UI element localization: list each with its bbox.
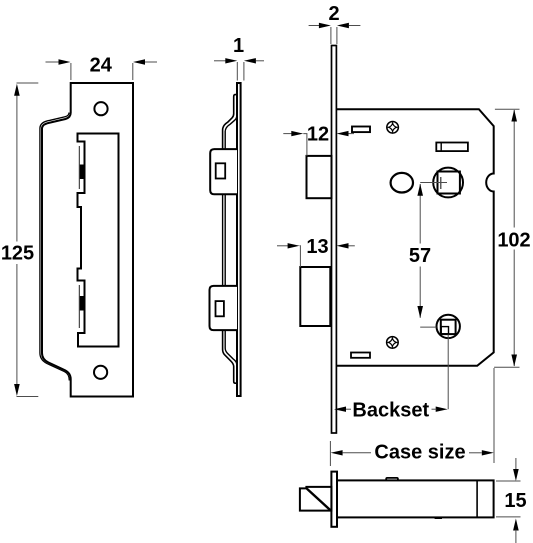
BOTTOM-VIEW <box>300 458 527 543</box>
MIDDLE-VIEW <box>210 35 265 396</box>
dim 1 extension left <box>236 62 238 81</box>
svg-text:125: 125 <box>1 243 34 265</box>
dim 1 arrow line left <box>214 60 226 62</box>
latch bolt head <box>300 487 332 511</box>
keeper inner line top <box>78 146 80 189</box>
dim 57 line lower <box>419 267 421 318</box>
LEFT-VIEW <box>1 54 157 396</box>
svg-text:Backset: Backset <box>352 400 429 422</box>
key follower square <box>441 320 456 334</box>
dim 57 line upper <box>419 184 421 244</box>
dim 15 arrowhead up <box>513 519 519 531</box>
dim 125 arrowhead up <box>14 84 20 96</box>
svg-text:57: 57 <box>409 245 431 267</box>
dim 13 leader elbow <box>299 246 302 267</box>
dim 15 line top <box>515 458 517 470</box>
slot lower left <box>351 353 370 358</box>
dim 102 line lower <box>513 250 515 367</box>
keeper dark bar top <box>80 165 84 180</box>
slot upper middle <box>436 143 468 152</box>
tab 2 square hole <box>216 301 224 316</box>
dim 2 arrow line left <box>309 25 319 27</box>
RIGHT-VIEW <box>277 3 531 466</box>
spindle inner line <box>440 177 442 189</box>
dim 13 arrowhead right <box>337 243 349 248</box>
case size arrowhead left <box>331 450 343 455</box>
key follower inner rect <box>441 327 448 334</box>
dim 24 extension right <box>132 63 134 80</box>
dim 57 stub top <box>420 182 447 184</box>
dim 12 arrow line left <box>283 133 291 135</box>
dim 102 tick bottom <box>494 366 519 368</box>
lock case body outline <box>337 109 494 366</box>
side plate body <box>237 83 241 396</box>
svg-text:13: 13 <box>306 236 328 258</box>
faceplate edge-on <box>332 46 337 434</box>
faceplate bar <box>331 472 337 527</box>
oval follower hole <box>391 173 413 193</box>
case size line right <box>469 452 482 454</box>
slot upper left <box>352 127 370 133</box>
svg-text:1: 1 <box>233 35 244 57</box>
backset arrowhead right <box>436 407 448 412</box>
dim 24 arrow line left <box>46 61 60 63</box>
dim 102 line upper <box>513 110 515 228</box>
dim 102 tick top <box>495 108 520 110</box>
dim 12 tail right <box>349 133 355 135</box>
dim 15 extension bottom <box>496 516 521 518</box>
svg-text:15: 15 <box>504 490 526 512</box>
dim 1 arrowhead left <box>225 58 237 63</box>
dim 57 stub bottom <box>420 326 436 328</box>
case size extension right <box>493 368 495 463</box>
dim 2 arrowhead left <box>319 23 331 28</box>
slot divider <box>440 143 442 152</box>
screw hole top <box>94 102 107 115</box>
latch bolt bevel diagonal <box>307 489 331 511</box>
lip line outer between tabs <box>222 194 224 286</box>
strike plate lip outer edge (double line) <box>40 113 69 381</box>
dim 1 arrow line right <box>256 60 264 62</box>
phillips screw top star <box>388 123 396 131</box>
dim 2 arrowhead right <box>337 23 349 28</box>
dim 24 arrowhead left <box>59 59 71 64</box>
dim 12 leader elbow <box>303 134 307 156</box>
dim 102 arrowhead down <box>511 355 517 367</box>
keeper inner line bottom <box>78 285 80 328</box>
backset line right <box>432 408 437 410</box>
keeper tab 1 <box>210 149 237 194</box>
follower leader line <box>447 335 449 410</box>
latch bolt box <box>307 156 332 198</box>
case size arrowhead right <box>482 450 494 455</box>
dim 13 arrow line left <box>277 245 288 247</box>
case size extension left <box>329 441 331 466</box>
phillips screw bottom circle <box>387 337 399 349</box>
dim 125 line upper <box>16 96 18 242</box>
bolt case end cap divider <box>476 480 478 517</box>
lower lip curve inner <box>225 330 237 364</box>
lower lip curve outer and bottom ear <box>223 330 237 383</box>
screw hole bottom <box>94 366 107 379</box>
strike plate outer outline <box>42 83 133 397</box>
dim 12 arrowhead right <box>337 131 349 136</box>
dim 1 extension right <box>243 62 245 81</box>
phillips screw top circle <box>387 122 399 134</box>
spindle circle <box>433 168 463 198</box>
dim 125 line lower <box>16 264 18 385</box>
backset line left <box>346 408 351 410</box>
dim 15 line bottom <box>515 530 517 543</box>
bolt case top bump <box>386 478 398 481</box>
dim 57 arrowhead down <box>417 306 423 318</box>
dim 125 tick top <box>17 82 39 84</box>
dim 15 extension top <box>496 480 521 482</box>
svg-text:24: 24 <box>90 54 113 76</box>
dim 1 arrowhead right <box>244 58 256 63</box>
spindle square <box>438 172 460 194</box>
lip line inner between tabs <box>224 194 226 286</box>
dim 15 arrowhead down <box>513 469 519 481</box>
svg-text:2: 2 <box>328 3 339 25</box>
dim 2 extension right <box>336 27 338 44</box>
strike plate inner cutout <box>78 134 119 347</box>
case size line left <box>343 452 371 454</box>
bolt case bottom mark <box>435 517 442 519</box>
dim 12 arrowhead left <box>291 131 303 136</box>
dim 102 arrowhead up <box>511 110 517 122</box>
upper lip curve inner <box>225 116 237 150</box>
lock case body fill <box>338 109 494 366</box>
dim 2 arrow line right <box>349 25 361 27</box>
backset arrowhead left <box>334 407 346 412</box>
svg-text:102: 102 <box>497 229 530 251</box>
key follower circle <box>437 315 460 338</box>
dim 24 arrow line right <box>145 61 157 63</box>
dim 2 extension left <box>330 27 332 44</box>
top ear and upper lip curve outer <box>223 95 237 150</box>
svg-text:12: 12 <box>307 124 329 146</box>
dim 57 arrowhead up <box>417 184 423 196</box>
keeper dark bar bottom <box>80 296 84 311</box>
dim 13 arrowhead left <box>288 243 300 248</box>
deadbolt box <box>300 267 330 326</box>
dim 125 tick bottom <box>17 396 39 398</box>
tab 1 square hole <box>216 163 226 178</box>
svg-text:Case size: Case size <box>374 442 465 464</box>
keeper tab 2 <box>210 286 238 330</box>
dim 24 arrowhead right <box>133 59 145 64</box>
dim 13 tail right <box>349 245 355 247</box>
dim 125 arrowhead down <box>14 384 20 396</box>
bolt case top view <box>337 480 494 517</box>
phillips screw bottom star <box>388 338 396 346</box>
dim 24 extension left <box>70 63 72 80</box>
